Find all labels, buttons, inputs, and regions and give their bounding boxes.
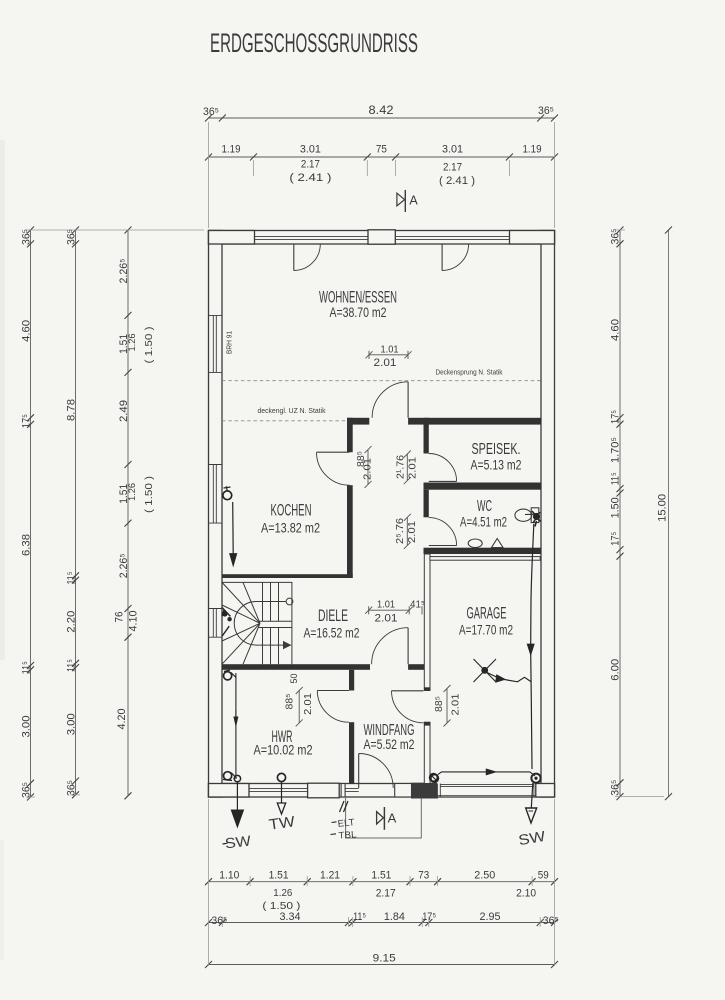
hwr east wall above door xyxy=(349,670,354,691)
hand hwr circle top xyxy=(224,672,232,680)
svg-text:1.26: 1.26 xyxy=(127,483,137,501)
svg-text:1.01: 1.01 xyxy=(381,343,399,355)
kitchen door leaf xyxy=(317,451,350,453)
north window glazing left xyxy=(255,236,369,239)
south wall SE corner block xyxy=(536,784,555,798)
svg-text:A=13.82 m2: A=13.82 m2 xyxy=(261,521,320,536)
svg-text:17⁵: 17⁵ xyxy=(21,414,33,428)
left dim chain L3 xyxy=(127,230,129,796)
south wall block right of entrance xyxy=(395,784,412,798)
hand kitchen utility line xyxy=(232,502,235,554)
svg-text:1.10: 1.10 xyxy=(219,870,239,882)
svg-text:36⁵: 36⁵ xyxy=(543,915,559,927)
tick slashes bottom B1 xyxy=(205,878,558,885)
hand hwr small arrow xyxy=(234,717,238,726)
hand garage drain zigzag xyxy=(487,673,531,682)
svg-text:SPEISEK.: SPEISEK. xyxy=(472,441,521,458)
hand garage door arrow line xyxy=(438,772,535,776)
west wall window W1 xyxy=(209,315,223,372)
svg-text:6.00: 6.00 xyxy=(610,659,622,681)
south wall pier block xyxy=(308,783,340,798)
wc door leaf xyxy=(429,545,457,547)
svg-text:3.00: 3.00 xyxy=(21,716,33,738)
svg-text:75: 75 xyxy=(376,144,387,156)
svg-text:88⁵: 88⁵ xyxy=(434,696,445,712)
entrance door leaf xyxy=(358,754,360,789)
svg-text:1.51: 1.51 xyxy=(269,870,289,882)
left dim chain L2 xyxy=(75,230,77,795)
svg-text:76: 76 xyxy=(114,612,126,623)
svg-text:2.01: 2.01 xyxy=(374,357,397,369)
stair lower treads xyxy=(263,628,279,665)
hand sw-right line xyxy=(531,783,533,808)
hand windfang circle xyxy=(430,774,438,782)
porch outline xyxy=(346,798,422,838)
kitchen door arc xyxy=(317,452,350,485)
hwr door leaf xyxy=(317,690,349,692)
speisek door arc xyxy=(429,454,457,482)
dashed ceiling line Deckensprung xyxy=(222,380,541,382)
svg-text:4.60: 4.60 xyxy=(610,319,622,341)
svg-text:2.20: 2.20 xyxy=(66,611,78,633)
svg-text:1.26: 1.26 xyxy=(273,887,292,899)
dim labels bottom xyxy=(211,870,558,965)
wc door dim xyxy=(404,514,411,549)
svg-text:17⁵: 17⁵ xyxy=(422,911,436,923)
hand kitchen arrow xyxy=(230,554,237,567)
svg-text:11⁵: 11⁵ xyxy=(21,661,33,674)
svg-text:11⁵: 11⁵ xyxy=(353,911,366,923)
entrance sidelight glazing xyxy=(345,788,359,791)
entrance door arc xyxy=(359,754,394,789)
svg-text:2.01: 2.01 xyxy=(362,458,374,480)
svg-text:3.01: 3.01 xyxy=(442,144,463,156)
svg-text:50: 50 xyxy=(289,674,300,684)
svg-text:A: A xyxy=(388,811,397,826)
svg-text:36⁵: 36⁵ xyxy=(66,229,78,245)
hand tw circle xyxy=(277,773,285,781)
svg-text:A=10.02 m2: A=10.02 m2 xyxy=(254,743,313,758)
svg-text:1.51: 1.51 xyxy=(371,870,391,882)
hand hwr circle bottom xyxy=(224,772,232,780)
garage west wall lower xyxy=(424,722,430,783)
svg-text:4.10: 4.10 xyxy=(128,611,140,632)
wall wohnen south L-top xyxy=(347,418,369,425)
bottom dim chain B2 xyxy=(209,922,555,924)
svg-text:2.50: 2.50 xyxy=(474,870,495,882)
garage door panel xyxy=(437,784,535,795)
south wall SW corner block xyxy=(209,784,250,798)
svg-text:DIELE: DIELE xyxy=(318,606,348,625)
tick slashes bottom B2 xyxy=(205,919,558,926)
svg-text:17⁵: 17⁵ xyxy=(610,532,622,546)
garage door jambs xyxy=(437,784,535,798)
dim labels right chains (rotated) xyxy=(610,229,669,796)
svg-text:( 1.50 ): ( 1.50 ) xyxy=(143,476,155,513)
svg-text:A: A xyxy=(409,194,418,208)
kitchen south wall xyxy=(222,574,353,578)
garage north wall xyxy=(430,557,540,561)
tick slashes bottom B3 xyxy=(205,961,558,968)
tick slashes top xyxy=(205,115,558,161)
svg-text:36⁵: 36⁵ xyxy=(211,915,227,927)
diele door dim xyxy=(365,606,422,614)
hand garage drain vertical xyxy=(531,524,534,644)
wall wohnen/speisek north xyxy=(408,418,541,425)
bottom dim chain B1 xyxy=(209,881,555,883)
svg-text:1.26: 1.26 xyxy=(127,334,137,352)
svg-text:A=38.70 m2: A=38.70 m2 xyxy=(330,305,387,320)
kitchen east wall xyxy=(347,485,353,578)
svg-text:WOHNEN/ESSEN: WOHNEN/ESSEN xyxy=(319,288,397,307)
svg-text:8.42: 8.42 xyxy=(369,105,394,117)
north window glazing right xyxy=(395,236,509,239)
right dim chain R1 xyxy=(619,230,621,797)
svg-text:BRH 91: BRH 91 xyxy=(227,331,234,354)
exterior wall east band xyxy=(541,231,555,798)
scan smudges xyxy=(0,140,5,660)
stair outline xyxy=(222,582,292,664)
hand sw-left arrow xyxy=(231,810,243,827)
stair walk line xyxy=(286,598,293,605)
wc triangle symbol xyxy=(492,539,504,548)
svg-text:1.21: 1.21 xyxy=(320,870,340,882)
dim labels left chains (rotated) xyxy=(21,229,156,798)
svg-text:2.17: 2.17 xyxy=(443,162,462,174)
hand elt marks xyxy=(340,801,349,812)
north wall NE corner block xyxy=(510,231,555,245)
wc door arc xyxy=(429,518,457,546)
exterior wall north band xyxy=(209,231,555,245)
wohnen door arc xyxy=(372,382,408,418)
hwr east wall below door xyxy=(349,722,354,783)
svg-text:1.19: 1.19 xyxy=(523,144,542,156)
svg-text:2.01: 2.01 xyxy=(302,693,314,715)
terrace door 2 leaf xyxy=(441,244,443,271)
top dimension line 1.19/3.01/75/3.01/1.19 xyxy=(209,156,555,158)
tick slashes left L1 xyxy=(27,227,34,801)
hand sw-right arrow xyxy=(526,808,537,823)
svg-text:41⁵: 41⁵ xyxy=(410,600,425,611)
svg-text:A=16.52 m2: A=16.52 m2 xyxy=(304,626,360,641)
svg-text:4.20: 4.20 xyxy=(116,709,128,730)
svg-text:6.38: 6.38 xyxy=(21,534,33,556)
stair walk arrow xyxy=(283,641,292,649)
svg-text:2.26⁵: 2.26⁵ xyxy=(118,259,130,284)
svg-text:3.01: 3.01 xyxy=(300,144,321,156)
svg-text:1.01: 1.01 xyxy=(377,599,395,611)
svg-text:Deckensprung N. Statik: Deckensprung N. Statik xyxy=(436,368,503,377)
west wall stair window W3 xyxy=(209,609,223,638)
svg-text:SW: SW xyxy=(224,833,252,852)
left dim chain L1 xyxy=(30,230,32,797)
svg-text:2.01: 2.01 xyxy=(407,457,419,479)
svg-text:11⁵: 11⁵ xyxy=(610,472,622,485)
wohnen door dim xyxy=(366,351,412,359)
hand stair-west scribble xyxy=(222,611,228,617)
hand hwr riser line xyxy=(235,673,237,779)
windfang-garage door arc xyxy=(392,691,424,723)
diele south wall 41.5 piece xyxy=(408,664,425,670)
svg-text:3.34: 3.34 xyxy=(280,911,301,923)
kitchen door dim xyxy=(365,446,372,488)
tick slashes right R2 xyxy=(665,227,672,801)
svg-text:A=4.51 m2: A=4.51 m2 xyxy=(460,515,507,530)
south wall dark pier xyxy=(412,783,438,798)
svg-text:1.19: 1.19 xyxy=(222,144,241,156)
svg-text:8.78: 8.78 xyxy=(66,399,78,421)
svg-text:2.95: 2.95 xyxy=(480,911,501,923)
extension lines xyxy=(26,122,664,966)
svg-text:2.17: 2.17 xyxy=(301,159,320,171)
stair winder fan xyxy=(222,582,260,664)
stair mid tread lines xyxy=(258,621,292,627)
hand sw-left line xyxy=(236,782,238,810)
dim labels top xyxy=(203,105,554,187)
svg-text:15.00: 15.00 xyxy=(657,494,669,522)
svg-text:36⁵: 36⁵ xyxy=(610,229,622,245)
windfang-garage door leaf xyxy=(392,690,424,692)
west wall window W2 xyxy=(209,465,223,524)
stair upper treads xyxy=(263,582,279,621)
speisek west wall above door xyxy=(424,418,429,454)
svg-text:11⁵: 11⁵ xyxy=(66,572,78,585)
diele door leaf xyxy=(407,628,409,665)
svg-text:36⁵: 36⁵ xyxy=(538,105,554,117)
right dim chain R2 15.00 xyxy=(668,230,670,797)
svg-text:36⁵: 36⁵ xyxy=(21,229,33,245)
svg-text:11⁵: 11⁵ xyxy=(66,659,78,672)
svg-text:A=17.70 m2: A=17.70 m2 xyxy=(459,623,513,638)
wc west wall above door xyxy=(424,490,429,518)
svg-text:( 1.50 ): ( 1.50 ) xyxy=(143,327,155,364)
wall above kitchen door xyxy=(347,418,353,452)
hwr door arc xyxy=(317,691,349,723)
diele door arc xyxy=(372,628,409,665)
section marker bottom xyxy=(377,812,384,824)
svg-text:4.60: 4.60 xyxy=(21,320,33,342)
wc basin xyxy=(468,539,482,548)
svg-text:36⁵: 36⁵ xyxy=(203,106,219,118)
terrace door 2 arc xyxy=(442,244,469,271)
svg-text:1.70⁵: 1.70⁵ xyxy=(610,437,622,463)
hand garage drain arrow xyxy=(527,644,534,655)
diele south wall left xyxy=(222,664,370,670)
south HWR window glazing xyxy=(249,784,308,798)
svg-text:2.49: 2.49 xyxy=(118,400,130,422)
hwr door dim xyxy=(296,687,303,726)
svg-text:WC: WC xyxy=(477,498,492,515)
svg-text:2.01: 2.01 xyxy=(406,521,418,543)
svg-text:GARAGE: GARAGE xyxy=(467,604,507,623)
svg-text:( 2.41 ): ( 2.41 ) xyxy=(289,172,331,184)
svg-text:36⁵: 36⁵ xyxy=(21,782,33,798)
svg-text:36⁵: 36⁵ xyxy=(610,780,622,796)
south entrance jamb xyxy=(341,784,345,798)
svg-text:TBL: TBL xyxy=(338,829,357,841)
svg-text:73: 73 xyxy=(418,870,429,882)
hand wc drain blob xyxy=(533,513,540,520)
svg-text:9.15: 9.15 xyxy=(373,953,396,965)
svg-text:88⁵: 88⁵ xyxy=(285,694,296,710)
speisek south wall xyxy=(424,483,542,490)
hand tw line xyxy=(281,782,283,803)
exterior wall west band xyxy=(209,231,223,798)
wc toilet xyxy=(515,509,532,521)
tick slashes left L2 xyxy=(72,227,79,799)
svg-text:2.17: 2.17 xyxy=(376,888,396,900)
hand kitchen utility circle xyxy=(223,491,232,500)
windfang-garage door dim xyxy=(444,685,451,727)
garage door opening clear xyxy=(437,783,536,797)
terrace door 1 leaf xyxy=(293,244,295,271)
north wall center pier xyxy=(368,230,395,244)
svg-text:59: 59 xyxy=(538,870,549,882)
wohnen door leaf xyxy=(407,382,409,418)
tick slashes right R1 xyxy=(617,227,624,801)
terrace door 1 arc xyxy=(294,244,321,271)
svg-text:A=5.52 m2: A=5.52 m2 xyxy=(364,737,415,752)
svg-text:1.84: 1.84 xyxy=(384,911,405,923)
svg-text:deckengl. UZ N. Statik: deckengl. UZ N. Statik xyxy=(258,406,326,415)
tick slashes left L3 xyxy=(125,227,132,800)
speisek door dim xyxy=(404,451,411,485)
svg-text:( 2.41 ): ( 2.41 ) xyxy=(439,175,475,187)
svg-text:2¹.76: 2¹.76 xyxy=(396,455,407,479)
svg-text:2.10: 2.10 xyxy=(516,888,536,900)
svg-text:17⁵: 17⁵ xyxy=(610,410,622,424)
section marker top xyxy=(397,193,405,206)
svg-text:2.01: 2.01 xyxy=(450,693,462,715)
speisek door leaf xyxy=(429,480,457,482)
svg-text:1.50: 1.50 xyxy=(610,497,622,518)
north wall NW corner block xyxy=(209,231,255,245)
hand tw arrow xyxy=(277,803,285,814)
dashed ceiling line deckengl UZ xyxy=(222,420,347,422)
svg-text:36⁵: 36⁵ xyxy=(66,780,78,796)
svg-text:A=5.13 m2: A=5.13 m2 xyxy=(471,458,522,473)
svg-text:ELT: ELT xyxy=(337,817,355,830)
garage west wall upper xyxy=(424,554,430,691)
hand garage door circles xyxy=(431,775,439,783)
hand sw-left connector circle xyxy=(234,775,240,781)
svg-text:KOCHEN: KOCHEN xyxy=(271,501,312,520)
svg-text:2.01: 2.01 xyxy=(375,613,398,625)
top dimension line 8.42 xyxy=(209,117,555,119)
svg-text:ERDGESCHOSSGRUNDRISS: ERDGESCHOSSGRUNDRISS xyxy=(210,28,418,58)
wc south wall xyxy=(424,548,542,554)
exterior wall south band xyxy=(209,784,555,798)
garage west wall door caps xyxy=(424,687,430,690)
hand garage floor drain X xyxy=(474,659,497,682)
svg-text:3.00: 3.00 xyxy=(66,713,78,735)
svg-text:2.26⁵: 2.26⁵ xyxy=(118,553,130,578)
svg-text:2⁵.76: 2⁵.76 xyxy=(395,518,406,544)
bottom dim chain B3 9.15 xyxy=(209,964,555,966)
